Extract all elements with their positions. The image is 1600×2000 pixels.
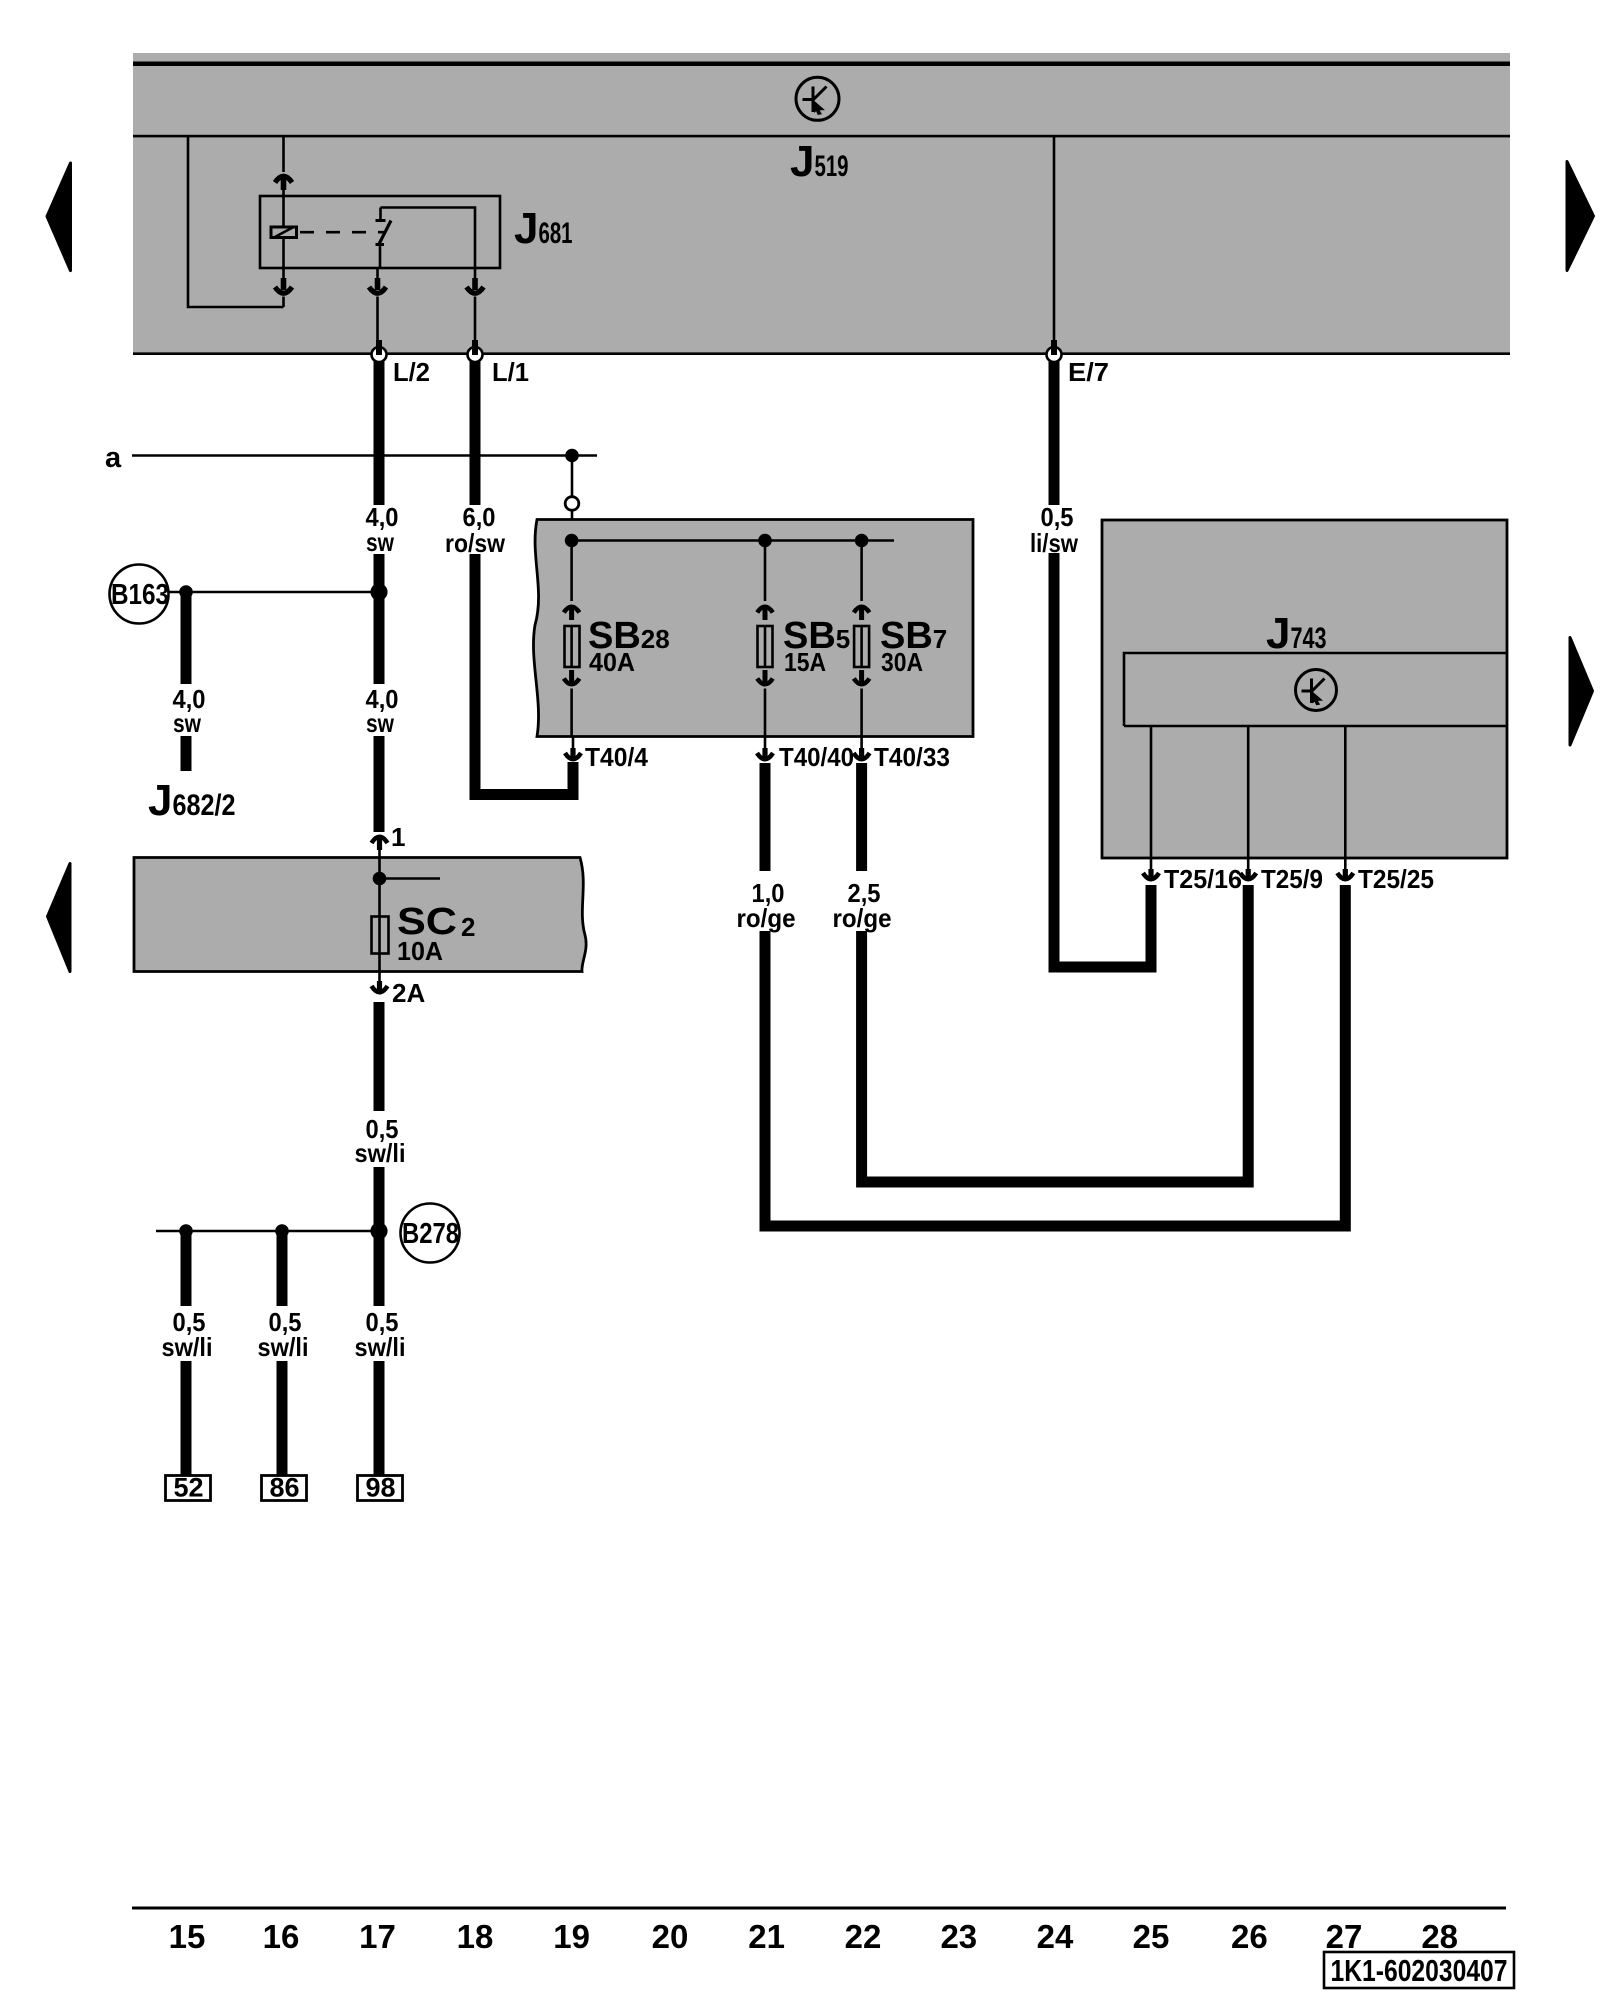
fuse box (SB) with torn left edge xyxy=(533,520,973,737)
ground terminal 86 xyxy=(262,1473,307,1503)
page arrow right middle xyxy=(1570,638,1593,746)
svg-text:T40/4: T40/4 xyxy=(585,742,648,772)
control unit J743 dual clutch gearbox mechatronics box xyxy=(1102,520,1507,858)
wire to terminal L/1 xyxy=(474,297,477,345)
terminal T40/33 xyxy=(854,737,870,760)
svg-text:B278: B278 xyxy=(402,1218,459,1250)
terminal L/1 xyxy=(468,340,483,362)
wire to terminal L/2 xyxy=(376,297,379,345)
svg-text:98: 98 xyxy=(365,1473,395,1503)
svg-text:sw/li: sw/li xyxy=(355,1332,406,1362)
junction dot B163 left xyxy=(179,585,193,599)
svg-text:30A: 30A xyxy=(881,647,923,677)
svg-text:22: 22 xyxy=(845,1918,882,1955)
svg-text:sw: sw xyxy=(366,527,395,557)
svg-text:L/2: L/2 xyxy=(393,357,430,387)
ground terminal 98 xyxy=(358,1473,403,1503)
open connector circle xyxy=(565,497,579,511)
svg-text:T25/16: T25/16 xyxy=(1164,864,1242,894)
svg-text:23: 23 xyxy=(940,1918,977,1955)
wire branch to 86 lower xyxy=(277,1361,288,1477)
wire L/2 thick 4,0 sw upper segment xyxy=(374,361,385,505)
pin arrow down (switch output L/1) xyxy=(467,268,484,293)
J743 internal wire pin 25 xyxy=(1344,726,1347,858)
pin arrow down (coil ground return, pin to bus) xyxy=(275,268,292,293)
svg-text:sw: sw xyxy=(173,708,202,738)
current track ruler line xyxy=(132,1907,1506,1910)
svg-text:ro/ge: ro/ge xyxy=(737,903,796,933)
svg-text:T40/40: T40/40 xyxy=(779,742,854,772)
internal bus wire from J519 to coil return xyxy=(188,136,284,307)
svg-text:25: 25 xyxy=(1133,1918,1170,1955)
junction dot on node a xyxy=(565,449,579,463)
svg-text:2: 2 xyxy=(461,912,475,942)
junction dot 52 branch xyxy=(179,1224,193,1238)
svg-text:ro/sw: ro/sw xyxy=(445,528,506,558)
diagram number box 1K1-602030407 xyxy=(1324,1952,1514,1988)
wire T40/33 2,5 ro/ge upper xyxy=(856,763,867,871)
K symbol in J519 xyxy=(796,77,839,120)
SC2 internal node line xyxy=(380,877,441,880)
svg-text:15A: 15A xyxy=(784,647,826,677)
wire L/1 to T40/4 with corner xyxy=(475,554,573,800)
svg-text:sw/li: sw/li xyxy=(258,1332,309,1362)
junction dot SB7 xyxy=(855,534,869,548)
terminal T40/40 xyxy=(757,737,773,760)
svg-text:86: 86 xyxy=(269,1473,299,1503)
wire J519 bus to relay coil pin xyxy=(282,136,285,172)
terminal T25/25 xyxy=(1337,858,1353,880)
pin arrow up (coil supply) xyxy=(275,176,292,190)
wire B163 branch line xyxy=(169,591,380,594)
svg-text:B163: B163 xyxy=(111,579,169,611)
svg-text:16: 16 xyxy=(263,1918,300,1955)
wire L/2 middle segment through B163 node xyxy=(374,554,385,684)
wire E/7 0,5 li/sw upper xyxy=(1049,361,1060,505)
wire 4,0 sw stub to J682/2 xyxy=(181,592,192,684)
wire stub end xyxy=(181,736,192,771)
svg-text:27: 27 xyxy=(1326,1918,1363,1955)
svg-text:L/1: L/1 xyxy=(492,357,529,387)
junction dot 86 branch xyxy=(275,1224,289,1238)
svg-text:2A: 2A xyxy=(392,978,425,1008)
wire L/2 lower segment to fuse SC2 pin 1 xyxy=(374,736,385,832)
node B278 branch line xyxy=(156,1230,379,1233)
svg-text:1: 1 xyxy=(391,822,405,852)
terminal E/7 xyxy=(1047,340,1062,362)
wire connector into fuse box xyxy=(571,511,574,541)
fuse SB28 40A xyxy=(564,541,580,737)
svg-text:21: 21 xyxy=(748,1918,785,1955)
wire 0,5 sw/li from SC2 xyxy=(374,1002,385,1111)
terminal 2A below SC2 xyxy=(372,972,388,993)
wire T40/40 to T25/25 long run xyxy=(765,885,1345,1232)
wire L/1 thick 6,0 ro/sw upper segment xyxy=(470,361,481,505)
page arrow left middle xyxy=(48,864,71,972)
svg-text:17: 17 xyxy=(359,1918,396,1955)
wire into relay box xyxy=(282,189,285,227)
wire E/7 inside J519 xyxy=(1053,136,1056,344)
K symbol in J743 xyxy=(1296,670,1337,711)
svg-text:28: 28 xyxy=(1421,1918,1458,1955)
svg-text:26: 26 xyxy=(1231,1918,1268,1955)
wire node a to connector xyxy=(571,456,574,497)
svg-text:24: 24 xyxy=(1037,1918,1074,1955)
wire branch to 86 upper xyxy=(277,1231,288,1306)
wire branch to 52 upper xyxy=(181,1231,192,1306)
wire coil to box bottom xyxy=(282,237,285,268)
svg-text:15: 15 xyxy=(169,1918,206,1955)
terminal T25/16 xyxy=(1143,858,1159,880)
wire to 98 lower xyxy=(374,1361,385,1477)
J743 internal wire pin 16 xyxy=(1150,726,1153,858)
svg-text:40A: 40A xyxy=(589,647,635,677)
page arrow left top xyxy=(47,163,71,271)
junction dot SC2 xyxy=(373,872,387,886)
svg-text:20: 20 xyxy=(652,1918,689,1955)
relay J681 box xyxy=(260,196,500,268)
wire T40/33 to T25/9 long run xyxy=(862,885,1249,1188)
J743 inner connector strip xyxy=(1124,653,1507,726)
svg-text:T40/33: T40/33 xyxy=(874,742,950,772)
fuse SB7 30A xyxy=(854,541,870,737)
wire branch to 52 lower xyxy=(181,1361,192,1477)
svg-text:T25/25: T25/25 xyxy=(1358,864,1434,894)
svg-text:10A: 10A xyxy=(397,936,443,966)
J743 internal wire pin 9 xyxy=(1247,726,1250,858)
page arrow right top xyxy=(1567,162,1594,271)
svg-text:sw/li: sw/li xyxy=(162,1332,213,1362)
junction dot B163 on main wire xyxy=(370,583,387,600)
pin arrow down (switch output L/2) xyxy=(369,268,386,293)
dashed actuation link xyxy=(300,231,384,234)
connector circle B278 xyxy=(401,1204,460,1263)
node a horizontal line xyxy=(132,454,597,457)
terminal T25/9 xyxy=(1240,858,1256,880)
junction dot B278 xyxy=(370,1222,387,1239)
terminal T40/4 xyxy=(565,737,581,760)
terminal pin 1 above SC2 xyxy=(372,837,388,857)
junction dot SB5 xyxy=(758,534,772,548)
control unit J519 onboard supply control unit box xyxy=(133,53,1510,355)
svg-text:E/7: E/7 xyxy=(1068,357,1109,387)
svg-text:a: a xyxy=(105,442,122,474)
svg-text:sw: sw xyxy=(366,708,395,738)
fuse holder box SC with torn right edge xyxy=(134,858,586,972)
svg-text:ro/ge: ro/ge xyxy=(833,903,892,933)
fuse SC2 10A xyxy=(372,858,389,972)
wire T40/40 1,0 ro/ge upper xyxy=(760,763,771,871)
svg-text:sw/li: sw/li xyxy=(355,1138,406,1168)
wire into B278 node xyxy=(374,1167,385,1306)
svg-text:19: 19 xyxy=(553,1918,590,1955)
fuse box internal bus xyxy=(572,539,894,542)
relay switch contact xyxy=(376,208,476,269)
svg-text:1K1-602030407: 1K1-602030407 xyxy=(1331,1953,1508,1988)
connector B163 xyxy=(110,565,169,624)
svg-text:52: 52 xyxy=(173,1473,203,1503)
junction dot SB28 xyxy=(565,534,579,548)
wire E/7 to T25/16 xyxy=(1054,553,1151,973)
relay coil J681 xyxy=(271,227,297,239)
fuse SB5 15A xyxy=(757,541,773,737)
ground terminal 52 xyxy=(166,1473,211,1503)
svg-text:18: 18 xyxy=(457,1918,494,1955)
terminal L/2 xyxy=(372,340,387,362)
svg-text:T25/9: T25/9 xyxy=(1261,864,1323,894)
